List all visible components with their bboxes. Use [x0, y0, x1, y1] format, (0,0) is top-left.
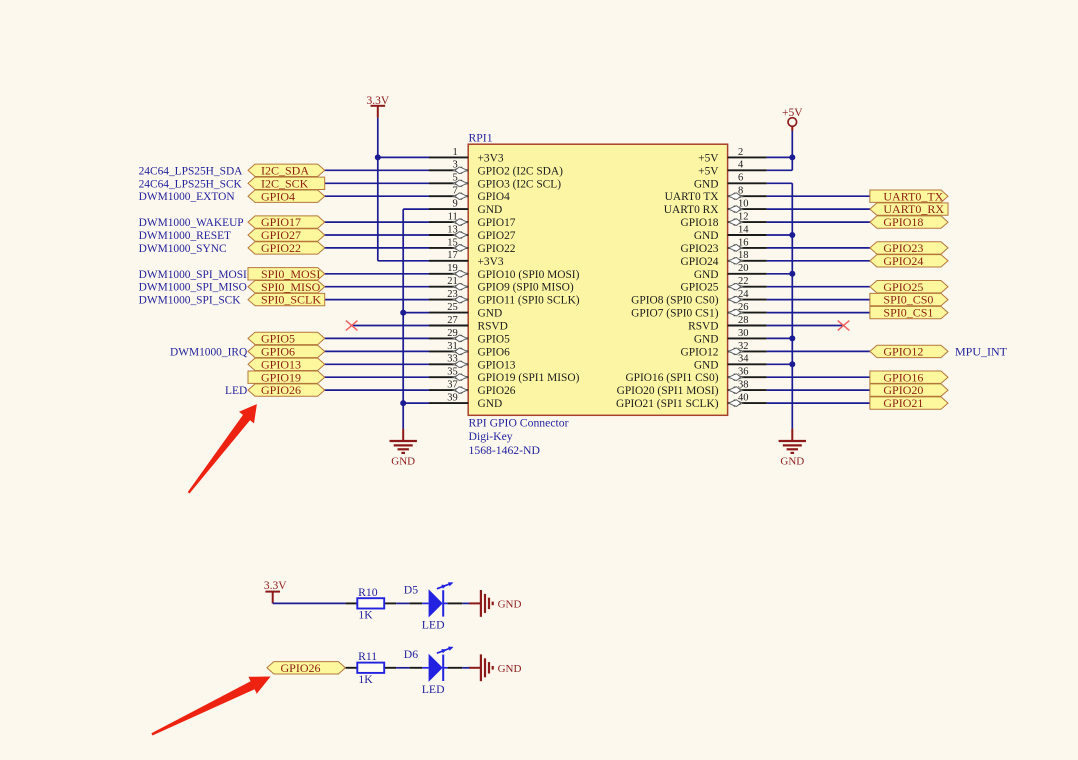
svg-text:GPIO18: GPIO18	[681, 217, 719, 229]
wire R10 to D5	[396, 602, 409, 604]
pin 37 (GPIO26)	[429, 380, 516, 398]
svg-text:UART0 RX: UART0 RX	[664, 204, 719, 216]
svg-text:GPIO26: GPIO26	[261, 383, 301, 397]
pin 11 (GPIO17)	[429, 212, 516, 230]
svg-text:SPI0_SCLK: SPI0_SCLK	[261, 293, 321, 307]
svg-text:9: 9	[453, 199, 458, 210]
pin 32 (GPIO12)	[681, 341, 767, 359]
pin 40 (GPIO21 (SPI1 SCLK))	[616, 393, 767, 411]
svg-text:GPIO21: GPIO21	[883, 396, 923, 410]
svg-text:GND: GND	[391, 456, 415, 468]
svg-text:GPIO16: GPIO16	[883, 370, 923, 384]
port GPIO19	[248, 370, 325, 384]
pin 9 (GND)	[429, 199, 502, 217]
svg-text:GPIO25: GPIO25	[681, 282, 719, 294]
svg-text:DWM1000_SPI_MOSI: DWM1000_SPI_MOSI	[139, 269, 247, 281]
power port 3.3V (top)	[366, 95, 389, 118]
wire pin to port UART0_RX	[767, 208, 872, 210]
svg-text:GPIO12: GPIO12	[883, 345, 923, 359]
pin 18 (GPIO24)	[681, 250, 767, 268]
port GPIO5	[248, 332, 325, 346]
pin 5 (GPIO3 (I2C SCL))	[429, 173, 561, 191]
svg-text:DWM1000_IRQ: DWM1000_IRQ	[170, 346, 248, 358]
svg-text:GPIO27: GPIO27	[261, 228, 301, 242]
svg-text:GPIO24: GPIO24	[681, 256, 719, 268]
svg-text:GPIO5: GPIO5	[261, 332, 295, 346]
pin 31 (GPIO6)	[429, 341, 510, 359]
svg-text:GPIO22: GPIO22	[478, 243, 516, 255]
svg-text:GND: GND	[478, 398, 503, 410]
wire pin to port GPIO24	[767, 260, 872, 262]
svg-text:LED: LED	[422, 618, 445, 631]
svg-text:RSVD: RSVD	[688, 321, 718, 333]
pin 29 (GPIO5)	[429, 328, 510, 346]
pin 39 (GND)	[429, 393, 502, 411]
port GPIO6	[248, 345, 325, 359]
svg-text:34: 34	[738, 354, 749, 365]
port GPIO23	[870, 241, 948, 255]
wire 3.3V rail to pin 1	[378, 156, 429, 158]
pin 17 (+3V3)	[429, 250, 504, 268]
svg-text:GPIO6: GPIO6	[478, 346, 511, 358]
pin 7 (GPIO4)	[429, 186, 510, 204]
connector RPI1 body	[468, 144, 727, 415]
power port +5V	[782, 107, 803, 131]
pin 14 (GND)	[694, 224, 767, 242]
pin 20 (GND)	[694, 263, 767, 281]
pin 33 (GPIO13)	[429, 354, 516, 372]
svg-text:UART0_TX: UART0_TX	[883, 189, 943, 203]
port GPIO26 (LED circuit)	[267, 661, 346, 675]
port GPIO26	[248, 383, 325, 397]
svg-text:GND: GND	[694, 359, 719, 371]
wire pin 28 (no ERC)	[767, 325, 844, 327]
net label DWM1000_IRQ	[170, 346, 248, 358]
svg-text:GPIO18: GPIO18	[883, 215, 923, 229]
pin 6 (GND)	[694, 173, 767, 191]
wire pin to port GPIO23	[767, 247, 872, 249]
wire pin 2 to +5V rail	[767, 156, 793, 158]
wire pin 4 to +5V rail	[767, 169, 793, 171]
svg-text:14: 14	[738, 224, 749, 235]
port GPIO20	[870, 383, 948, 397]
ground GND (left rail)	[390, 429, 417, 468]
wire pin 27 (no ERC)	[352, 325, 429, 327]
svg-text:GND: GND	[694, 178, 719, 190]
port GPIO27	[248, 228, 325, 242]
svg-text:GPIO4: GPIO4	[261, 189, 295, 203]
svg-text:4: 4	[738, 160, 744, 171]
ground GND (circuit R10)	[469, 590, 521, 617]
svg-text:24C64_LPS25H_SCK: 24C64_LPS25H_SCK	[139, 178, 243, 190]
wire port GPIO6 to pin	[323, 350, 429, 352]
wire port SPI0_MOSI to pin	[323, 273, 429, 275]
svg-text:DWM1000_SPI_MISO: DWM1000_SPI_MISO	[139, 282, 247, 294]
resistor R11 1K	[346, 650, 397, 686]
svg-text:GPIO21 (SPI1 SCLK): GPIO21 (SPI1 SCLK)	[616, 398, 719, 410]
wire pin 6 to GND rail	[767, 182, 793, 184]
pin 12 (GPIO18)	[681, 212, 767, 230]
junction pin 30 / GND	[789, 335, 795, 341]
wire port SPI0_MISO to pin	[323, 286, 429, 288]
wire pin to port GPIO20	[767, 389, 872, 391]
wire pin to port GPIO18	[767, 221, 872, 223]
port UART0_RX	[870, 202, 948, 216]
svg-text:GPIO25: GPIO25	[883, 280, 923, 294]
svg-text:DWM1000_RESET: DWM1000_RESET	[139, 230, 231, 242]
svg-text:GPIO20 (SPI1 MOSI): GPIO20 (SPI1 MOSI)	[617, 385, 719, 397]
svg-text:3.3V: 3.3V	[264, 580, 287, 592]
junction pin 39 / GND	[400, 400, 406, 406]
svg-text:24C64_LPS25H_SDA: 24C64_LPS25H_SDA	[139, 165, 244, 177]
svg-text:GPIO9 (SPI0 MISO): GPIO9 (SPI0 MISO)	[478, 282, 574, 294]
net label DWM1000_SPI_MISO	[139, 282, 247, 294]
port SPI0_CS0	[870, 293, 948, 307]
svg-text:17: 17	[447, 250, 458, 261]
wire port SPI0_SCLK to pin	[323, 299, 429, 301]
port GPIO12	[870, 345, 948, 359]
svg-text:R11: R11	[358, 650, 377, 663]
svg-text:+5V: +5V	[698, 152, 719, 164]
svg-text:GPIO26: GPIO26	[281, 661, 321, 675]
svg-text:GND: GND	[478, 308, 503, 320]
junction pin 1 / 3.3V	[375, 154, 381, 160]
pin 30 (GND)	[694, 328, 767, 346]
net label 24C64_LPS25H_SDA	[139, 165, 244, 177]
junction pin 2 / +5V	[789, 154, 795, 160]
wire D6 to GND	[462, 667, 470, 669]
svg-text:GND: GND	[694, 333, 719, 345]
pin 22 (GPIO25)	[681, 276, 767, 294]
resistor R10 1K	[346, 586, 397, 622]
wire 3.3V rail vertical	[377, 118, 379, 261]
wire left GND rail vertical	[402, 209, 404, 429]
svg-text:DWM1000_SYNC: DWM1000_SYNC	[139, 243, 227, 255]
svg-text:39: 39	[447, 393, 458, 404]
comment RPI GPIO Connector	[469, 417, 569, 430]
pin 1 (+3V3)	[429, 147, 504, 165]
port I2C_SDA	[248, 163, 325, 177]
svg-text:I2C_SCK: I2C_SCK	[261, 176, 309, 190]
pin 24 (GPIO8 (SPI0 CS0))	[631, 289, 767, 307]
svg-text:2: 2	[738, 147, 743, 158]
port SPI0_MISO	[248, 280, 325, 294]
wire pin to port UART0_TX	[767, 195, 872, 197]
svg-text:GPIO7 (SPI0 CS1): GPIO7 (SPI0 CS1)	[631, 308, 719, 320]
LED D6	[404, 647, 463, 696]
net label DWM1000_WAKEUP	[139, 217, 244, 229]
pin 25 (GND)	[429, 302, 502, 320]
wire port I2C_SDA to pin	[323, 169, 429, 171]
svg-text:6: 6	[738, 173, 743, 184]
svg-text:RPI GPIO Connector: RPI GPIO Connector	[469, 417, 569, 430]
svg-text:1568-1462-ND: 1568-1462-ND	[469, 444, 540, 457]
wire port GPIO5 to pin	[323, 337, 429, 339]
svg-text:GPIO4: GPIO4	[478, 191, 511, 203]
svg-text:GPIO13: GPIO13	[261, 357, 301, 371]
port GPIO4	[248, 189, 325, 203]
svg-text:GND: GND	[478, 204, 503, 216]
LED D5	[404, 582, 463, 631]
wire R11 to D6	[396, 667, 409, 669]
pin 27 (RSVD)	[429, 315, 508, 333]
svg-text:GPIO20: GPIO20	[883, 383, 923, 397]
pin 16 (GPIO23)	[681, 237, 767, 255]
svg-text:RSVD: RSVD	[478, 321, 508, 333]
pin 38 (GPIO20 (SPI1 MOSI))	[617, 380, 767, 398]
svg-text:GPIO17: GPIO17	[478, 217, 516, 229]
svg-text:R10: R10	[358, 586, 378, 599]
ground GND (circuit R11)	[469, 654, 521, 681]
svg-text:MPU_INT: MPU_INT	[955, 345, 1008, 359]
svg-text:D6: D6	[404, 648, 418, 661]
net label DWM1000_SYNC	[139, 243, 227, 255]
pin 10 (UART0 RX)	[664, 199, 767, 217]
svg-text:GND: GND	[780, 456, 804, 468]
svg-text:LED: LED	[225, 385, 247, 397]
port GPIO17	[248, 215, 325, 229]
pin 34 (GND)	[694, 354, 767, 372]
wire pin to port GPIO21	[767, 402, 872, 404]
junction pin 34 / GND	[789, 361, 795, 367]
svg-text:GPIO10 (SPI0 MOSI): GPIO10 (SPI0 MOSI)	[478, 269, 580, 281]
pin 23 (GPIO11 (SPI0 SCLK))	[429, 289, 580, 307]
pin 3 (GPIO2 (I2C SDA))	[429, 160, 563, 178]
svg-text:1K: 1K	[358, 673, 373, 686]
pin 35 (GPIO19 (SPI1 MISO))	[429, 367, 580, 385]
svg-text:GPIO19: GPIO19	[261, 370, 301, 384]
wire port GPIO17 to pin	[323, 221, 429, 223]
svg-text:I2C_SDA: I2C_SDA	[261, 163, 309, 177]
svg-text:SPI0_CS1: SPI0_CS1	[883, 306, 933, 320]
port GPIO24	[870, 254, 948, 268]
svg-text:DWM1000_EXTON: DWM1000_EXTON	[139, 191, 235, 203]
svg-text:GPIO23: GPIO23	[681, 243, 719, 255]
net label 24C64_LPS25H_SCK	[139, 178, 243, 190]
svg-text:RPI1: RPI1	[469, 131, 493, 144]
wire pin 20 to GND rail	[767, 273, 793, 275]
net label DWM1000_SPI_MOSI	[139, 269, 247, 281]
svg-text:GPIO11 (SPI0 SCLK): GPIO11 (SPI0 SCLK)	[478, 295, 580, 307]
svg-text:GND: GND	[694, 269, 719, 281]
wire pin 14 to GND rail	[767, 234, 793, 236]
svg-text:20: 20	[738, 263, 749, 274]
no-ERC marker pin 27	[346, 321, 358, 331]
net label DWM1000_RESET	[139, 230, 231, 242]
svg-text:SPI0_MOSI: SPI0_MOSI	[261, 267, 320, 281]
svg-text:+3V3: +3V3	[478, 152, 504, 164]
svg-text:GPIO19 (SPI1 MISO): GPIO19 (SPI1 MISO)	[478, 372, 580, 384]
wire 3.3V rail to pin 17	[378, 260, 429, 262]
pin 2 (+5V)	[698, 147, 767, 165]
svg-text:GND: GND	[498, 598, 522, 610]
svg-text:27: 27	[447, 315, 458, 326]
port SPI0_MOSI	[248, 267, 325, 281]
svg-text:SPI0_CS0: SPI0_CS0	[883, 293, 933, 307]
junction pin 25 / GND	[400, 310, 406, 316]
junction pin 14 / GND	[789, 232, 795, 238]
pin 21 (GPIO9 (SPI0 MISO))	[429, 276, 574, 294]
svg-text:GPIO13: GPIO13	[478, 359, 516, 371]
wire right GND rail vertical	[791, 183, 793, 428]
port SPI0_SCLK	[248, 293, 325, 307]
svg-text:SPI0_MISO: SPI0_MISO	[261, 280, 321, 294]
svg-text:+3V3: +3V3	[478, 256, 504, 268]
wire pin to port SPI0_CS0	[767, 299, 872, 301]
net label MPU_INT	[955, 345, 1008, 359]
wire pin to port GPIO25	[767, 286, 872, 288]
svg-text:GPIO16 (SPI1 CS0): GPIO16 (SPI1 CS0)	[625, 372, 718, 384]
svg-text:GPIO22: GPIO22	[261, 241, 301, 255]
svg-text:GPIO8 (SPI0 CS0): GPIO8 (SPI0 CS0)	[631, 295, 719, 307]
pin 26 (GPIO7 (SPI0 CS1))	[631, 302, 767, 320]
svg-text:1: 1	[453, 147, 458, 158]
pin 28 (RSVD)	[688, 315, 767, 333]
port GPIO16	[870, 370, 948, 384]
wire port I2C_SCK to pin	[323, 182, 429, 184]
pin 13 (GPIO27)	[429, 224, 516, 242]
wire port GPIO13 to pin	[323, 363, 429, 365]
port SPI0_CS1	[870, 306, 948, 320]
wire pin to port SPI0_CS1	[767, 312, 872, 314]
svg-text:DWM1000_SPI_SCK: DWM1000_SPI_SCK	[139, 295, 242, 307]
wire port GPIO19 to pin	[323, 376, 429, 378]
svg-text:GPIO12: GPIO12	[681, 346, 719, 358]
port GPIO25	[870, 280, 948, 294]
svg-text:GPIO5: GPIO5	[478, 333, 511, 345]
wire port GPIO26 to pin	[323, 389, 429, 391]
svg-text:GPIO2 (I2C SDA): GPIO2 (I2C SDA)	[478, 165, 564, 177]
svg-text:GND: GND	[694, 230, 719, 242]
net label DWM1000_SPI_SCK	[139, 295, 242, 307]
junction pin 20 / GND	[789, 271, 795, 277]
wire pin 30 to GND rail	[767, 337, 793, 339]
comment 1568-1462-ND	[469, 444, 540, 457]
designator RPI1	[469, 131, 493, 144]
svg-text:DWM1000_WAKEUP: DWM1000_WAKEUP	[139, 217, 244, 229]
comment Digi-Key	[469, 430, 513, 443]
wire 3.3V to R10	[273, 602, 346, 604]
port GPIO13	[248, 357, 325, 371]
wire pin 9 to GND rail	[403, 208, 429, 210]
wire pin to port GPIO16	[767, 376, 872, 378]
pin 8 (UART0 TX)	[665, 186, 767, 204]
svg-text:LED: LED	[422, 683, 445, 696]
port GPIO22	[248, 241, 325, 255]
wire pin to port GPIO12	[767, 350, 872, 352]
wire pin 39 to GND rail	[403, 402, 429, 404]
pin 15 (GPIO22)	[429, 237, 516, 255]
svg-text:GPIO27: GPIO27	[478, 230, 516, 242]
port UART0_TX	[870, 189, 948, 203]
svg-text:GPIO17: GPIO17	[261, 215, 301, 229]
net label LED	[225, 385, 247, 397]
svg-text:28: 28	[738, 315, 749, 326]
port GPIO18	[870, 215, 948, 229]
pin 4 (+5V)	[698, 160, 767, 178]
power port 3.3V (circuit R10)	[264, 580, 287, 603]
no-ERC marker pin 28	[838, 321, 850, 331]
svg-text:Digi-Key: Digi-Key	[469, 430, 513, 443]
svg-text:25: 25	[447, 302, 458, 313]
svg-text:GPIO26: GPIO26	[478, 385, 516, 397]
wire +5V rail vertical	[791, 131, 793, 170]
pin 19 (GPIO10 (SPI0 MOSI))	[429, 263, 580, 281]
wire D5 to GND	[462, 602, 470, 604]
wire pin 34 to GND rail	[767, 363, 793, 365]
ground GND (right rail)	[779, 429, 806, 468]
wire port GPIO27 to pin	[323, 234, 429, 236]
svg-text:GND: GND	[498, 663, 522, 675]
svg-text:GPIO6: GPIO6	[261, 345, 295, 359]
wire port GPIO4 to pin	[323, 195, 429, 197]
svg-text:+5V: +5V	[698, 165, 719, 177]
wire port GPIO22 to pin	[323, 247, 429, 249]
svg-text:GPIO24: GPIO24	[883, 254, 923, 268]
pin 36 (GPIO16 (SPI1 CS0))	[625, 367, 766, 385]
port I2C_SCK	[248, 176, 325, 190]
wire pin 25 to GND rail	[403, 312, 429, 314]
port GPIO21	[870, 396, 948, 410]
annotation arrow 1 (points to GPIO26 port)	[188, 404, 257, 493]
annotation arrow 2 (points to GPIO26 LED circuit)	[151, 677, 270, 736]
svg-text:1K: 1K	[358, 609, 373, 622]
svg-text:GPIO23: GPIO23	[883, 241, 923, 255]
svg-text:D5: D5	[404, 583, 418, 596]
svg-text:GPIO3 (I2C SCL): GPIO3 (I2C SCL)	[478, 178, 562, 190]
svg-text:UART0 TX: UART0 TX	[665, 191, 720, 203]
svg-text:30: 30	[738, 328, 749, 339]
net label DWM1000_EXTON	[139, 191, 235, 203]
svg-text:UART0_RX: UART0_RX	[883, 202, 944, 216]
